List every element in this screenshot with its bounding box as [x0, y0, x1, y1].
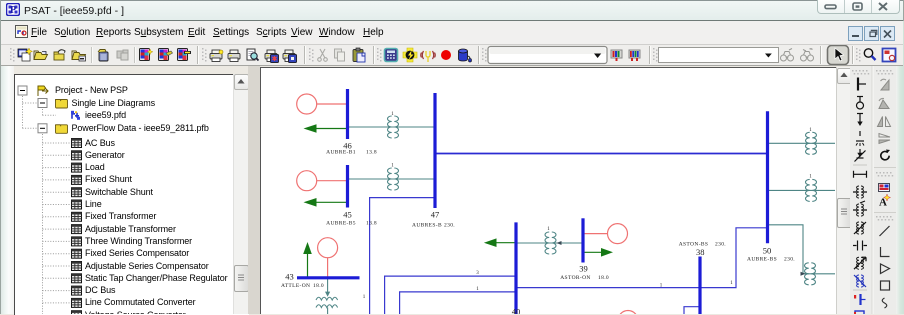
- svg-text:AUBRES-B: AUBRES-B: [412, 222, 442, 228]
- svg-text:1: 1: [809, 175, 812, 180]
- svg-text:ASTON-BS: ASTON-BS: [679, 241, 709, 247]
- svg-text:230.: 230.: [715, 241, 726, 247]
- svg-text:AUBRE-BS: AUBRE-BS: [747, 257, 777, 263]
- svg-text:3: 3: [476, 271, 479, 276]
- svg-text:1: 1: [391, 112, 394, 117]
- svg-text:P: P: [10, 5, 16, 16]
- svg-text:230.: 230.: [444, 222, 455, 228]
- svg-text:47: 47: [431, 209, 440, 219]
- svg-text:AUBRE-B1: AUBRE-B1: [326, 150, 356, 156]
- svg-text:13.8: 13.8: [366, 221, 377, 227]
- svg-text:1: 1: [363, 295, 366, 300]
- svg-text:1: 1: [809, 128, 812, 133]
- svg-text:13.8: 13.8: [366, 150, 377, 156]
- svg-text:18.0: 18.0: [313, 283, 324, 289]
- svg-text:ATTLE-ON: ATTLE-ON: [281, 283, 310, 289]
- svg-text:1: 1: [547, 227, 550, 232]
- svg-text:43: 43: [285, 272, 294, 282]
- svg-text:18.0: 18.0: [598, 275, 609, 281]
- svg-text:230.: 230.: [784, 257, 795, 263]
- svg-text:1: 1: [730, 281, 733, 286]
- svg-text:50: 50: [763, 246, 772, 256]
- svg-text:38: 38: [696, 247, 705, 257]
- svg-text:ASTOR-ON: ASTOR-ON: [560, 275, 591, 281]
- svg-text:AUBRE-B5: AUBRE-B5: [326, 221, 356, 227]
- svg-text:1: 1: [476, 287, 479, 292]
- svg-text:40: 40: [512, 307, 521, 315]
- svg-text:1: 1: [391, 163, 394, 168]
- svg-text:39: 39: [579, 264, 588, 274]
- svg-text:45: 45: [343, 209, 352, 219]
